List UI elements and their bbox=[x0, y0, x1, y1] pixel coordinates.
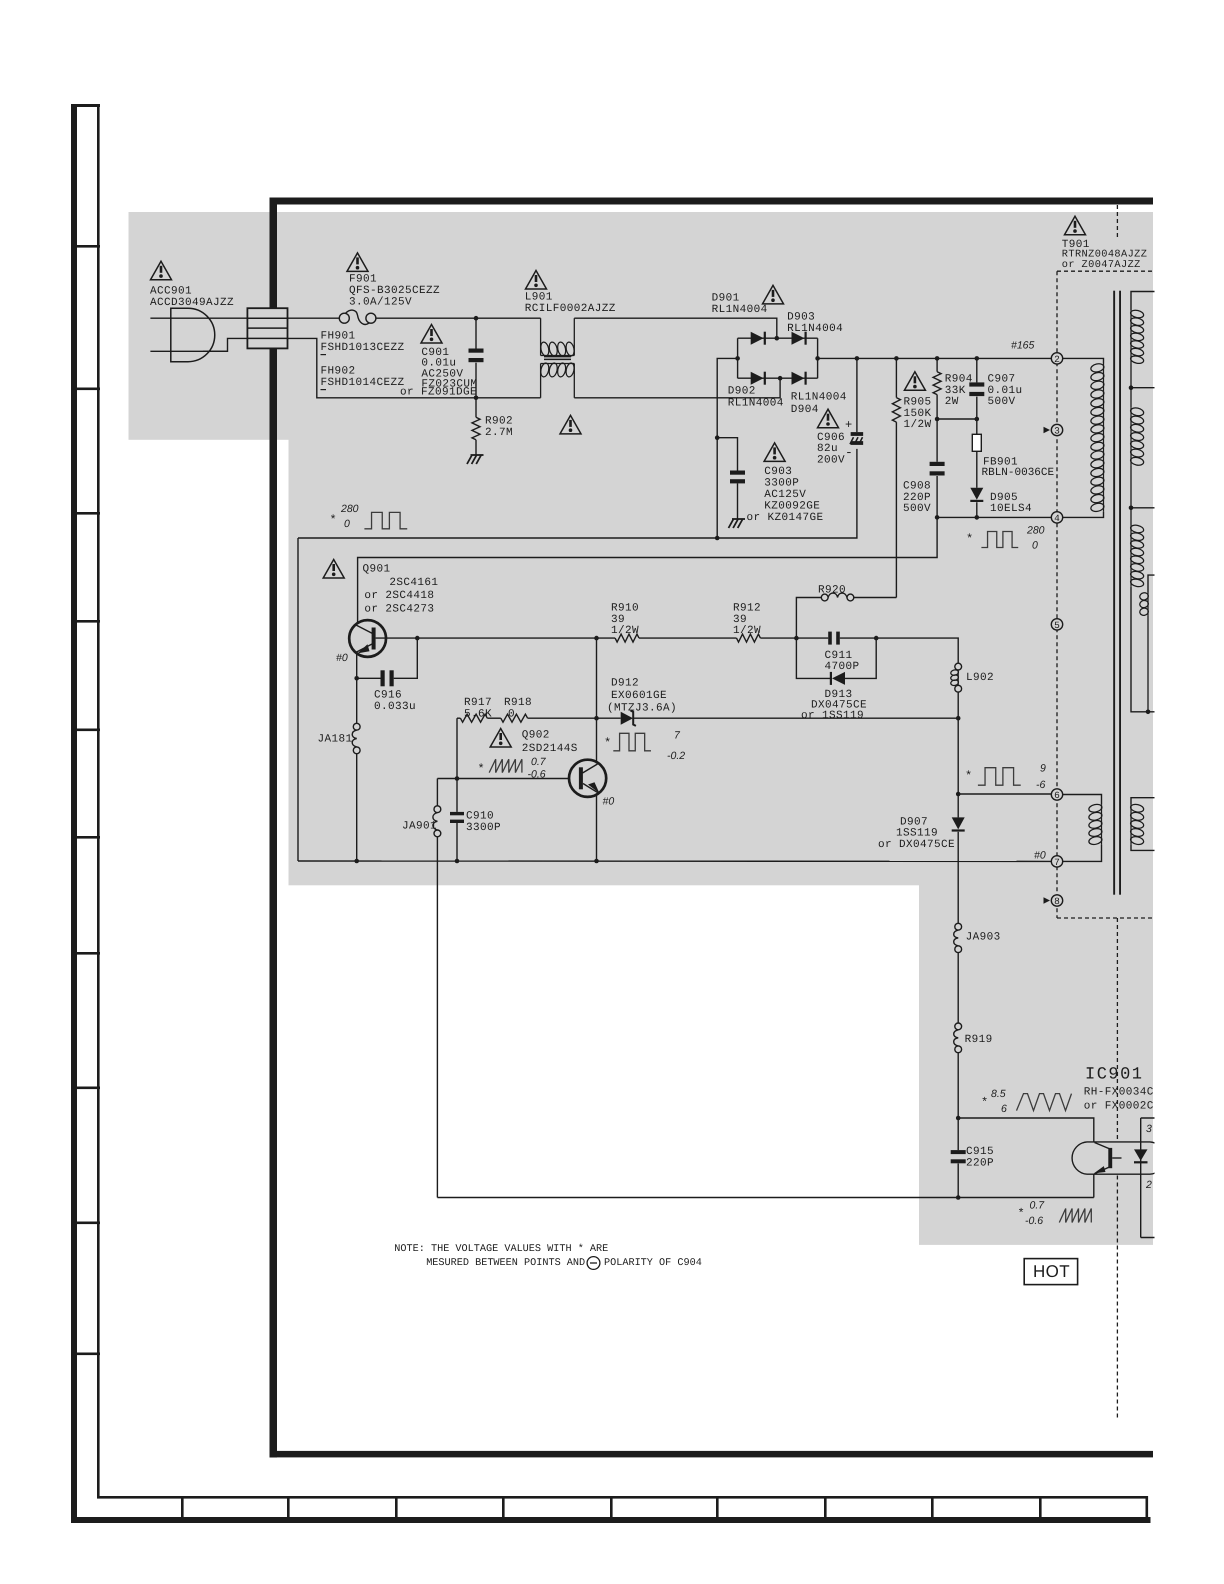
junction C901 top bbox=[474, 316, 479, 321]
svg-text:*: * bbox=[966, 532, 974, 546]
svg-text:-: - bbox=[845, 445, 853, 460]
svg-text:JA181: JA181 bbox=[318, 733, 353, 745]
resistor R917 bbox=[460, 714, 487, 722]
page border ruler: top cap bbox=[71, 104, 100, 107]
IC901 package right box bbox=[1141, 1118, 1156, 1238]
junction C901 bottom bbox=[474, 396, 479, 401]
warning triangle (ACC901) bbox=[151, 261, 172, 280]
wire: FB901 to D905 bbox=[976, 451, 978, 488]
ground (R902) bbox=[467, 455, 472, 464]
svg-text:82u: 82u bbox=[817, 443, 838, 455]
svg-text:RL1N4004: RL1N4004 bbox=[791, 391, 847, 403]
svg-text:R918: R918 bbox=[504, 697, 532, 709]
svg-text:9: 9 bbox=[1040, 763, 1046, 775]
svg-text:2: 2 bbox=[1145, 1179, 1152, 1191]
svg-text:or 2SC4418: or 2SC4418 bbox=[364, 590, 434, 602]
page border ruler: bottom tick 6 bbox=[716, 1496, 719, 1519]
warning triangle (T901) bbox=[1065, 216, 1086, 235]
wire: JA901 long run down to opto line bbox=[436, 837, 438, 1198]
svg-text:or FZ091DGE: or FZ091DGE bbox=[400, 387, 477, 399]
wire: C901 bottom lead bbox=[475, 363, 477, 398]
wire: bridge left mid down to return line bbox=[717, 358, 737, 538]
warning triangle (C903) bbox=[764, 443, 785, 462]
svg-text:3300P: 3300P bbox=[764, 477, 799, 489]
svg-text:*: * bbox=[478, 762, 486, 776]
T901 pin 2 bbox=[1051, 353, 1062, 364]
svg-text:#165: #165 bbox=[1011, 340, 1035, 352]
svg-text:FH901: FH901 bbox=[321, 330, 356, 342]
wire: R904-C907 link bbox=[937, 418, 977, 420]
jumper R919 (jumper style) bbox=[955, 1023, 962, 1030]
svg-text:JA901: JA901 bbox=[402, 820, 437, 832]
transistor Q901 bbox=[349, 620, 386, 657]
page border ruler: left tick 2 bbox=[71, 388, 100, 391]
svg-text:or FX0002C: or FX0002C bbox=[1084, 1100, 1154, 1112]
svg-text:1/2W: 1/2W bbox=[733, 625, 761, 637]
svg-text:C911: C911 bbox=[825, 650, 853, 662]
wire: bus to R902 bbox=[475, 398, 477, 418]
wire: L901 to bridge top input bbox=[574, 318, 777, 338]
wire: C906 to return line (inner loop top) bbox=[298, 449, 857, 538]
svg-text:C907: C907 bbox=[988, 373, 1016, 385]
junction bridge right mid bbox=[815, 356, 820, 361]
wire: pin6 to drive winding bbox=[1063, 795, 1102, 805]
page border ruler: bottom tick 8 bbox=[931, 1496, 934, 1519]
svg-text:4: 4 bbox=[1054, 513, 1060, 524]
svg-text:POLARITY OF C904: POLARITY OF C904 bbox=[604, 1258, 702, 1269]
jumper JA181 bbox=[353, 723, 360, 730]
wire: node up to R920 bbox=[796, 598, 821, 639]
wire: Q902 emitter down bbox=[596, 794, 598, 862]
svg-text:#0: #0 bbox=[603, 796, 615, 808]
wire: drive winding to pin 7 bbox=[1063, 845, 1102, 862]
svg-text:RCILF0002AJZZ: RCILF0002AJZZ bbox=[525, 303, 616, 315]
svg-text:MESURED BETWEEN POINTS AND: MESURED BETWEEN POINTS AND bbox=[426, 1258, 585, 1269]
wire: R919 to C915 node bbox=[957, 1053, 959, 1118]
junction bridge top mid bbox=[775, 336, 780, 341]
wire: pin2 to primary winding bbox=[1063, 358, 1104, 363]
page border ruler: inner left line bbox=[97, 104, 100, 1498]
svg-text:AC125V: AC125V bbox=[764, 489, 806, 501]
svg-text:*: * bbox=[981, 1096, 989, 1110]
svg-text:EX0601GE: EX0601GE bbox=[611, 690, 667, 702]
page border ruler: left tick 9 bbox=[71, 1222, 100, 1225]
wire: S2 to S3 tap bbox=[1130, 465, 1132, 525]
T901 pin 6 bbox=[1051, 789, 1062, 800]
wire: auxiliary winding top lead bbox=[1148, 575, 1156, 592]
wire: fuse holder lower to bottom AC bus bbox=[288, 338, 340, 397]
schematic frame bottom edge bbox=[270, 1451, 1154, 1458]
svg-text:D912: D912 bbox=[611, 677, 639, 689]
wire: base line down to JA901 bbox=[436, 779, 438, 806]
T901 secondary winding S4 bbox=[1130, 804, 1132, 844]
wire: collector node to base-drive node bbox=[596, 638, 598, 718]
wire: D905 to pin4 line bbox=[976, 502, 978, 517]
resistor R904 bbox=[933, 372, 941, 395]
svg-text:NOTE: THE VOLTAGE VALUES WITH: NOTE: THE VOLTAGE VALUES WITH * ARE bbox=[394, 1243, 608, 1255]
wire: S1 to S2 tap bbox=[1130, 364, 1132, 408]
svg-text:FSHD1013CEZZ: FSHD1013CEZZ bbox=[321, 342, 405, 354]
wire: C911 left lead bbox=[796, 637, 828, 639]
HOT label box bbox=[1024, 1259, 1077, 1285]
coil L902 bbox=[955, 663, 962, 670]
junction D907 top bbox=[956, 792, 961, 797]
svg-text:KZ0092GE: KZ0092GE bbox=[764, 500, 820, 512]
wire: C916 left lead bbox=[357, 677, 381, 679]
T901 secondary winding S2 bbox=[1130, 408, 1132, 466]
page border ruler: left tick 4 bbox=[71, 620, 100, 623]
svg-text:QFS-B3025CEZZ: QFS-B3025CEZZ bbox=[349, 285, 440, 297]
wire: Q902 base line bbox=[437, 778, 569, 780]
T901 secondary winding S3 bbox=[1130, 525, 1132, 587]
svg-text:*: * bbox=[1018, 1207, 1026, 1221]
wire: C908 to pin4 line bbox=[936, 476, 938, 517]
wire: Q901 emitter down to JA181 bbox=[356, 654, 358, 724]
wire: Q901 base to node bbox=[376, 637, 418, 639]
svg-text:R902: R902 bbox=[485, 415, 513, 427]
junction L902/D907 bbox=[956, 716, 961, 721]
capacitor C906 (electrolytic) bbox=[851, 432, 864, 436]
svg-text:10ELS4: 10ELS4 bbox=[990, 503, 1032, 515]
page border ruler: left tick 10 bbox=[71, 1353, 100, 1356]
arrow marker at pin 3 bbox=[1044, 427, 1051, 434]
svg-text:*: * bbox=[604, 736, 612, 750]
svg-text:0.7: 0.7 bbox=[531, 756, 547, 768]
junction C915 top bbox=[956, 1116, 961, 1121]
wire: JA181 to inner loop bottom bbox=[356, 754, 358, 861]
svg-text:RBLN-0036CE: RBLN-0036CE bbox=[982, 467, 1055, 479]
svg-text:6: 6 bbox=[1054, 790, 1060, 801]
page border ruler: left tick 8 bbox=[71, 1087, 100, 1090]
page border ruler: outer left line bbox=[71, 104, 77, 1523]
capacitor C916 bbox=[381, 670, 385, 686]
wire: opto emitter down bbox=[1093, 1174, 1095, 1197]
svg-text:C916: C916 bbox=[374, 689, 402, 701]
fuse holder internal line 2 bbox=[247, 327, 287, 329]
optocoupler phototransistor bbox=[1108, 1148, 1112, 1168]
T901 primary winding (pins 2-4) bbox=[1103, 364, 1105, 512]
wire: secondary tap 2 stub bbox=[1131, 507, 1156, 509]
wire: C907 to FB901 bbox=[976, 397, 978, 435]
shaded hot-area background main body bbox=[289, 439, 1154, 886]
svg-text:220P: 220P bbox=[966, 1157, 994, 1169]
wire: node to pin 6 bbox=[958, 793, 1051, 795]
svg-text:RL1N4004: RL1N4004 bbox=[712, 304, 768, 316]
svg-text:or 2SC4273: or 2SC4273 bbox=[364, 604, 434, 616]
wire: auxiliary winding to output node bbox=[1147, 616, 1149, 712]
wire: S4 bottom stub bbox=[1131, 845, 1156, 851]
page border ruler: bottom tick 1 bbox=[181, 1496, 184, 1519]
svg-text:FSHD1014CEZZ: FSHD1014CEZZ bbox=[321, 377, 405, 389]
wire: fuse to L901 top bus bbox=[376, 317, 541, 319]
shaded hot-area background lower column bbox=[919, 884, 1153, 1245]
wire: inner loop bottom / pin7 line bbox=[298, 860, 1051, 862]
svg-text:R912: R912 bbox=[733, 603, 761, 615]
svg-text:5: 5 bbox=[1054, 620, 1060, 631]
AC plug ACC901 bbox=[171, 308, 215, 362]
zener diode D912 bbox=[621, 712, 633, 725]
warning triangle (C901) bbox=[421, 325, 442, 344]
page border ruler: bottom tick 2 bbox=[287, 1496, 290, 1519]
wire: L902 to switching line bbox=[957, 692, 959, 718]
page border ruler: left tick 1 bbox=[71, 245, 100, 248]
svg-text:RH-FX0034C: RH-FX0034C bbox=[1084, 1086, 1154, 1098]
wire: D907 to JA903 bbox=[957, 832, 959, 924]
svg-text:(MTZJ3.6A): (MTZJ3.6A) bbox=[607, 702, 677, 714]
svg-text:FH902: FH902 bbox=[321, 365, 356, 377]
wire: JA903 to R919 bbox=[957, 953, 959, 1023]
wire: S3 bottom to output node bbox=[1131, 587, 1156, 712]
page border ruler: left tick 5 bbox=[71, 729, 100, 732]
wire: bottom AC bus to L901 bbox=[339, 397, 541, 399]
wire: D913 right branch bbox=[845, 638, 876, 678]
warning triangle (Q902) bbox=[490, 729, 511, 748]
svg-text:Q901: Q901 bbox=[363, 563, 391, 575]
capacitor C911 bbox=[828, 632, 832, 645]
svg-text:0: 0 bbox=[344, 518, 350, 530]
shaded hot-area background top band bbox=[129, 212, 1154, 440]
svg-text:0.033u: 0.033u bbox=[374, 701, 416, 713]
junction Q901 base node bbox=[415, 636, 420, 641]
svg-text:280: 280 bbox=[1026, 525, 1045, 537]
svg-text:3: 3 bbox=[1054, 425, 1060, 436]
T901 pin 7 bbox=[1051, 856, 1062, 867]
arrow marker at pin 8 bbox=[1044, 897, 1051, 904]
capacitor C901 bbox=[469, 349, 484, 353]
wire: AC line top prong to fuse holder bbox=[150, 317, 247, 319]
svg-text:HOT: HOT bbox=[1033, 1262, 1070, 1281]
svg-text:R920: R920 bbox=[818, 584, 846, 596]
svg-text:or 1SS119: or 1SS119 bbox=[801, 710, 864, 722]
warning triangle (C906) bbox=[818, 409, 839, 428]
T901 dashed outline box bbox=[1057, 270, 1154, 272]
wire: C911 node to L902 bbox=[876, 638, 958, 663]
junction emitter/inner loop bottom bbox=[594, 859, 599, 864]
warning triangle (F901) bbox=[347, 253, 368, 272]
svg-text:220P: 220P bbox=[903, 492, 931, 504]
junction C910/R917 node bbox=[455, 776, 460, 781]
svg-text:C906: C906 bbox=[817, 432, 845, 444]
wire: bus to R905 bbox=[895, 358, 897, 397]
svg-text:IC901: IC901 bbox=[1085, 1066, 1144, 1085]
wire: D913 left branch bbox=[796, 638, 830, 678]
svg-text:1SS119: 1SS119 bbox=[896, 827, 938, 839]
svg-text:#0: #0 bbox=[1034, 850, 1046, 862]
diode D903 bbox=[792, 332, 805, 345]
svg-text:D903: D903 bbox=[787, 311, 815, 323]
junction C903 line / return line bbox=[715, 536, 720, 541]
svg-text:C908: C908 bbox=[903, 480, 931, 492]
capacitor C910 bbox=[450, 812, 464, 815]
capacitor C903 bbox=[730, 471, 745, 475]
T901 pin 5 bbox=[1051, 619, 1062, 630]
optocoupler LED bbox=[1134, 1149, 1148, 1160]
svg-text:4700P: 4700P bbox=[825, 661, 860, 673]
warning triangle (Q901) bbox=[323, 560, 344, 579]
svg-text:or KZ0147GE: or KZ0147GE bbox=[747, 512, 824, 524]
wire: bus to C907 bbox=[976, 358, 978, 382]
resistor R910 bbox=[615, 634, 639, 642]
wire: primary winding to pin 4 bbox=[1063, 512, 1104, 518]
svg-text:3.0A/125V: 3.0A/125V bbox=[349, 296, 412, 308]
dashed leader to T901 label bbox=[1116, 205, 1118, 238]
page border ruler: bottom tick 4 bbox=[502, 1496, 505, 1519]
svg-text:-0.6: -0.6 bbox=[528, 769, 546, 781]
optocoupler IC901 package capsule bbox=[1072, 1142, 1165, 1174]
resistor R920 (jumper style) bbox=[821, 594, 828, 601]
svg-text:3300P: 3300P bbox=[466, 822, 501, 834]
svg-text:0.7: 0.7 bbox=[1030, 1200, 1046, 1212]
page border ruler: bottom inner line bbox=[97, 1496, 1148, 1499]
junction C916 left bbox=[354, 676, 359, 681]
svg-text:R919: R919 bbox=[965, 1034, 993, 1046]
svg-text:#0: #0 bbox=[336, 652, 348, 664]
svg-text:D902: D902 bbox=[728, 385, 756, 397]
svg-text:200V: 200V bbox=[817, 454, 845, 466]
svg-text:R910: R910 bbox=[611, 603, 639, 615]
svg-text:or Z0047AJZZ: or Z0047AJZZ bbox=[1062, 259, 1141, 271]
wire: R918 to D912 bbox=[528, 717, 621, 719]
page border ruler: bottom right cap bbox=[1146, 1496, 1149, 1519]
wire: node up to R917 line bbox=[456, 718, 458, 778]
dashed hot/cold isolation line upper bbox=[1116, 918, 1118, 1141]
svg-text:0.01u: 0.01u bbox=[988, 385, 1023, 397]
wire: bottom prong jog up to fuse holder bbox=[203, 338, 247, 351]
svg-text:D901: D901 bbox=[712, 292, 740, 304]
svg-text:JA903: JA903 bbox=[966, 931, 1001, 943]
T901 core lines bbox=[1113, 291, 1115, 895]
svg-text:1/2W: 1/2W bbox=[611, 625, 639, 637]
svg-text:*: * bbox=[965, 769, 973, 783]
junction C911 left bbox=[794, 636, 799, 641]
svg-text:C915: C915 bbox=[966, 1146, 994, 1158]
svg-text:33K: 33K bbox=[945, 385, 966, 397]
warning triangle (L901) bbox=[526, 271, 547, 290]
bridge rectifier outline wires bbox=[738, 338, 818, 378]
wire: S4 top stub bbox=[1131, 798, 1156, 805]
svg-text:8: 8 bbox=[1054, 896, 1060, 907]
wire: main rectified bus to pin 2 bbox=[818, 357, 1052, 359]
svg-text:2.7M: 2.7M bbox=[485, 427, 513, 439]
svg-text:L901: L901 bbox=[525, 291, 553, 303]
page border ruler: bottom tick 3 bbox=[395, 1496, 398, 1519]
svg-text:-0.6: -0.6 bbox=[1025, 1215, 1043, 1227]
junction C910/inner loop bottom bbox=[455, 859, 460, 864]
dashed hot/cold isolation line lower bbox=[1116, 1176, 1118, 1419]
svg-text:280: 280 bbox=[340, 503, 359, 515]
svg-text:0: 0 bbox=[1032, 540, 1038, 552]
wire: secondary S1 top lead bbox=[1131, 292, 1156, 311]
junction Q902 collector line bbox=[594, 716, 599, 721]
resistor R905 bbox=[892, 398, 900, 423]
fusible resistor FB901 bbox=[972, 434, 981, 451]
svg-text:8.5: 8.5 bbox=[991, 1088, 1006, 1100]
diode D907 bbox=[952, 817, 965, 829]
diode D913 bbox=[832, 672, 845, 685]
schematic frame left edge bbox=[270, 198, 278, 1458]
wire: pin 4 line bbox=[937, 516, 1051, 518]
warning triangle (R902 area) bbox=[560, 415, 581, 434]
svg-text:500V: 500V bbox=[903, 503, 931, 515]
wire: secondary tap 1 stub bbox=[1131, 387, 1156, 389]
wire: R904 to C908 bbox=[936, 395, 938, 462]
warning triangle (R905) bbox=[904, 372, 925, 391]
svg-text:L902: L902 bbox=[966, 672, 994, 684]
svg-text:2W: 2W bbox=[945, 396, 959, 408]
wire: C903 to ground bbox=[737, 483, 739, 519]
capacitor C908 bbox=[930, 462, 945, 466]
wire: R910 to R912 bbox=[639, 637, 737, 639]
wire: Q902 collector up bbox=[596, 718, 598, 763]
svg-text:D904: D904 bbox=[791, 404, 819, 416]
warning triangle (D901/D903) bbox=[763, 285, 784, 304]
svg-text:R904: R904 bbox=[945, 373, 973, 385]
diode D901 bbox=[751, 332, 764, 345]
junction bridge left mid bbox=[735, 356, 740, 361]
junction secondary tap 2 bbox=[1129, 506, 1134, 511]
T901 drive winding (pins 6-7) bbox=[1101, 804, 1103, 844]
junction bridge bottom mid bbox=[778, 376, 783, 381]
junction inner loop bottom left bbox=[354, 859, 359, 864]
svg-text:3: 3 bbox=[1146, 1123, 1152, 1135]
wire: switching line left end bbox=[457, 717, 460, 719]
schematic frame top edge bbox=[270, 198, 1154, 205]
wire: R905 down to R920 bbox=[895, 422, 897, 597]
page border ruler: left tick 3 bbox=[71, 512, 100, 515]
svg-text:ACCD3049AJZZ: ACCD3049AJZZ bbox=[150, 297, 234, 309]
wire: base node to R910 bbox=[417, 637, 615, 639]
ground (C903) bbox=[729, 519, 734, 528]
wire: bus to R904 bbox=[936, 358, 938, 371]
page border ruler: bottom tick 7 bbox=[824, 1496, 827, 1519]
jumper JA901 bbox=[434, 806, 441, 813]
fuse holder internal line 1 bbox=[247, 317, 287, 319]
T901 pin 3 bbox=[1051, 424, 1062, 435]
svg-text:2: 2 bbox=[1054, 354, 1060, 365]
page border ruler: left tick 6 bbox=[71, 836, 100, 839]
wire: C916 right lead up to base node bbox=[394, 638, 418, 678]
wire: bus to C906 bbox=[856, 358, 858, 432]
wire: AC line bottom prong bbox=[150, 350, 227, 352]
svg-text:6: 6 bbox=[1001, 1103, 1007, 1115]
svg-text:R905: R905 bbox=[904, 396, 932, 408]
capacitor C907 bbox=[969, 382, 984, 386]
svg-text:+: + bbox=[845, 418, 853, 432]
page border ruler: bottom outer line bbox=[71, 1517, 1151, 1523]
svg-text:0: 0 bbox=[508, 708, 515, 720]
svg-text:RL1N4004: RL1N4004 bbox=[728, 397, 784, 409]
T901 secondary winding S1 bbox=[1130, 310, 1132, 363]
page border ruler: bottom tick 5 bbox=[610, 1496, 613, 1519]
wire: opto emitter return line bbox=[437, 1197, 1093, 1199]
wire: R917 to R918 bbox=[487, 717, 501, 719]
wire: D912 to L902 node bbox=[633, 717, 958, 719]
svg-text:F901: F901 bbox=[349, 273, 377, 285]
wire: fuse holder to fuse F901 bbox=[288, 317, 340, 319]
wire: C910 bottom lead bbox=[456, 823, 458, 861]
wire: C901 top lead bbox=[475, 318, 477, 348]
transistor Q902 bbox=[569, 760, 606, 797]
svg-text:-0.2: -0.2 bbox=[667, 750, 685, 762]
diode D905 bbox=[970, 488, 983, 500]
wire: C903 top lead bbox=[717, 438, 737, 471]
wire: C915 top lead bbox=[957, 1118, 959, 1150]
wire: L901 to bridge bottom input bbox=[574, 378, 780, 398]
wire: R920 to R905 line bbox=[854, 597, 897, 599]
svg-text:C903: C903 bbox=[764, 466, 792, 478]
wire: C915 bottom lead bbox=[957, 1164, 959, 1198]
junction C903 tap bbox=[715, 435, 720, 440]
